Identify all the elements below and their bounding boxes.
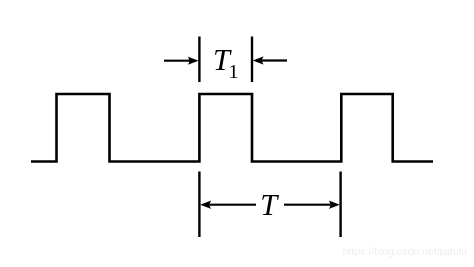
wire T left arrow: [200, 201, 256, 209]
node T1 right extension tick: [251, 37, 253, 83]
wire T1 left arrow: [164, 57, 199, 65]
wire T right arrow: [284, 201, 340, 209]
node T right extension line: [339, 172, 341, 238]
svg-text:T: T: [260, 188, 279, 222]
node T1 left extension tick: [198, 37, 200, 83]
node T left extension line: [198, 172, 200, 238]
svg-text:https://blog.csdn.net/jiafulu: https://blog.csdn.net/jiafulu: [343, 246, 467, 258]
wire square-wave waveform: [31, 94, 433, 162]
wire T1 right arrow: [253, 56, 287, 64]
svg-text:1: 1: [229, 61, 239, 83]
label T1: [213, 43, 239, 83]
